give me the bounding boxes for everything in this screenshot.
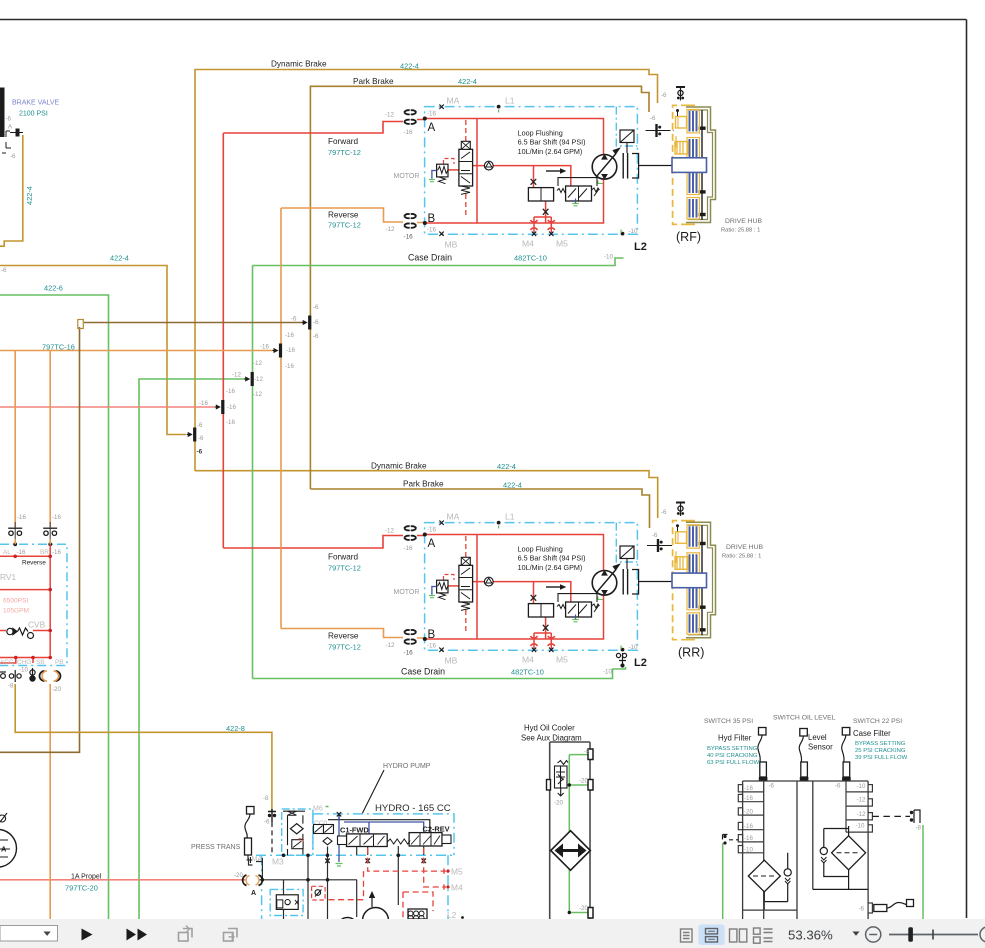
svg-text:Reverse: Reverse [22, 560, 46, 567]
wire park brake RR run [310, 489, 649, 528]
flushing valve body [276, 895, 298, 910]
orange stubs into block [15, 539, 50, 544]
brown elbow marker [78, 320, 84, 329]
svg-text:422-4: 422-4 [497, 462, 516, 471]
red net inside valve block [0, 544, 50, 663]
wire orange 797TC-16 horizontal [0, 350, 276, 352]
svg-text:BRAKE VALVE: BRAKE VALVE [12, 100, 60, 107]
svg-text:SB: SB [36, 659, 45, 666]
svg-text:-6: -6 [6, 116, 12, 123]
wire orange pump suction [49, 684, 51, 919]
svg-text:-20: -20 [52, 686, 62, 693]
svg-text:-6: -6 [661, 509, 667, 516]
brake valve outlet fitting [16, 129, 20, 137]
aux valve red dashed box [312, 886, 326, 900]
svg-text:C1-FWD: C1-FWD [340, 826, 369, 835]
wire forward RR [223, 536, 424, 549]
wire 422-4 brake valve drop [0, 135, 23, 246]
zoom out button [866, 927, 881, 942]
svg-text:Hyd Oil Cooler: Hyd Oil Cooler [524, 724, 575, 733]
wire 422-6 green [0, 295, 109, 919]
svg-text:-6: -6 [10, 153, 16, 160]
hyd filter check valve [764, 853, 787, 902]
wire 422-4 dynamic brake spine [195, 70, 658, 472]
svg-text:M5: M5 [451, 867, 463, 877]
svg-text:-6: -6 [197, 449, 203, 456]
svg-text:-16: -16 [52, 514, 62, 521]
svg-text:63 PSI FULL FLOW: 63 PSI FULL FLOW [707, 760, 760, 766]
svg-text:-8: -8 [263, 795, 269, 802]
press trans switch square [247, 807, 255, 815]
svg-text:-12: -12 [857, 797, 867, 804]
cooler port bottom [588, 908, 593, 919]
svg-text:-10: -10 [857, 783, 867, 790]
leader line [362, 770, 384, 814]
charge relief cyan boxlet [270, 889, 303, 915]
hyd filter diamond [748, 860, 780, 892]
park crosshair fitting RF [646, 124, 668, 137]
motor block RF [385, 96, 672, 254]
-8 fitting under 422-8 [268, 809, 276, 822]
bottom port labels [0, 659, 64, 666]
case drain fitting [910, 811, 913, 814]
misc gray labels [1, 92, 667, 879]
svg-text:-6: -6 [313, 319, 319, 326]
svg-text:PB: PB [55, 659, 64, 666]
svg-text:L2: L2 [447, 910, 457, 920]
press trans capsule [245, 838, 252, 855]
cooler bypass relief [555, 761, 569, 797]
svg-text:-16: -16 [17, 514, 27, 521]
case filter switch [842, 728, 850, 736]
svg-text:-16: -16 [286, 347, 296, 354]
window icon 1 [179, 926, 193, 942]
press trans cable [245, 814, 250, 838]
svg-text:-10: -10 [604, 254, 614, 261]
svg-text:M3: M3 [272, 857, 284, 867]
brake valve dashed outline [2, 131, 11, 153]
wire red forward spine [222, 133, 224, 548]
svg-text:HYDRO PUMP: HYDRO PUMP [383, 763, 431, 770]
pump circle charge [338, 918, 358, 938]
green return left [722, 843, 724, 919]
case drain dashed line [872, 815, 910, 817]
left suction dashes [729, 839, 738, 841]
svg-text:422-4: 422-4 [110, 254, 129, 263]
bypass text right [855, 741, 908, 761]
charge check valve [288, 811, 297, 815]
ladder right stubs case [846, 781, 872, 832]
wire code labels teal [42, 62, 547, 893]
svg-text:-6: -6 [313, 333, 319, 340]
center spring [387, 839, 410, 844]
svg-text:1A Propel: 1A Propel [71, 874, 102, 881]
park dash link RR [669, 545, 674, 547]
cooler port top [588, 749, 593, 760]
svg-text:SWITCH 35 PSI: SWITCH 35 PSI [704, 718, 753, 725]
wire 422-4 left horizontal [0, 266, 186, 435]
ladder left stubs [738, 785, 763, 853]
SECTION: bottom toolbar [0, 919, 985, 948]
wire dynamic brake RR run [195, 471, 658, 518]
hyd filter switch [759, 728, 767, 736]
svg-text:M4: M4 [451, 883, 463, 893]
-20 orange coupler [40, 671, 61, 681]
percent dropdown arrow [853, 932, 860, 936]
highlighted page icon [699, 925, 725, 946]
cooler diamond [551, 831, 591, 871]
fitting -12 green [244, 372, 254, 386]
wire reverse RF [281, 208, 425, 223]
svg-text:797TC-12: 797TC-12 [328, 221, 361, 230]
wire green branch to cascade [139, 379, 245, 919]
svg-text:-16: -16 [226, 388, 236, 395]
cooler port left [547, 780, 551, 791]
svg-text:40 PSI CRACKING: 40 PSI CRACKING [707, 753, 758, 759]
svg-text:-6: -6 [835, 783, 841, 790]
svg-text:Park Brake: Park Brake [353, 77, 394, 86]
svg-text:Ratio: 25.88 : 1: Ratio: 25.88 : 1 [721, 228, 760, 234]
svg-text:AL: AL [3, 549, 11, 556]
toolbar background [0, 919, 985, 948]
park crosshair fitting RR [647, 539, 669, 552]
top black bus [328, 814, 430, 833]
tank bottom link [743, 902, 797, 911]
svg-text:Dynamic Brake: Dynamic Brake [371, 462, 427, 471]
SECTION: wires [0, 70, 658, 920]
red dash M5 path [325, 848, 446, 900]
cooler column walls [550, 742, 590, 919]
cooler port mid [588, 780, 593, 791]
svg-text:-6: -6 [197, 422, 203, 429]
green ground [336, 864, 343, 867]
svg-text:797TC-12: 797TC-12 [328, 148, 361, 157]
svg-text:-12: -12 [232, 372, 242, 379]
svg-text:A: A [251, 890, 256, 897]
svg-text:Hyd Filter: Hyd Filter [718, 734, 752, 743]
svg-text:-6: -6 [652, 532, 658, 539]
svg-text:RV1: RV1 [0, 572, 16, 582]
fitting -16 orange [273, 344, 283, 358]
svg-text:Dynamic Brake: Dynamic Brake [271, 60, 327, 69]
drive hub RR [672, 521, 716, 640]
wire case drain RF [253, 258, 624, 266]
svg-text:-16: -16 [744, 835, 754, 842]
svg-text:-16: -16 [260, 344, 270, 351]
svg-text:422-6: 422-6 [44, 284, 63, 293]
svg-text:-16: -16 [17, 549, 27, 556]
wire 797TC-16 pink feed [0, 406, 215, 408]
svg-text:-20: -20 [554, 800, 564, 807]
fitting -6 park brown [302, 316, 312, 330]
svg-text:PRESS TRANS: PRESS TRANS [191, 844, 241, 851]
svg-text:Forward: Forward [328, 137, 358, 146]
C1 valve body [347, 834, 388, 847]
dropdown box [0, 926, 58, 942]
node dots [261, 878, 265, 882]
svg-text:-6: -6 [291, 316, 297, 323]
brake valve body bar [0, 88, 5, 138]
svg-text:797TC-12: 797TC-12 [328, 564, 361, 573]
C2 solenoid end [442, 835, 451, 844]
svg-text:-8: -8 [584, 749, 590, 756]
wire green case drain spine [252, 266, 254, 679]
CVB relief valve symbol [7, 628, 34, 639]
wire brown to park fitting [84, 322, 303, 324]
SECTION: filter tank assembly [704, 715, 923, 920]
bottom fittings [0, 668, 35, 682]
wire case drain RR [253, 667, 626, 679]
svg-text:105GPM: 105GPM [3, 608, 29, 615]
svg-text:422-4: 422-4 [400, 62, 419, 71]
C1 solenoid end [338, 836, 347, 845]
svg-text:DRIVE HUB: DRIVE HUB [726, 544, 763, 551]
svg-text:Case Filter: Case Filter [853, 729, 891, 738]
svg-text:-16: -16 [227, 404, 237, 411]
svg-text:-8: -8 [8, 683, 14, 690]
svg-text:797TC-16: 797TC-16 [42, 343, 75, 352]
quad icon [754, 928, 773, 943]
svg-text:-12: -12 [254, 376, 264, 383]
svg-text:SWITCH 22 PSI: SWITCH 22 PSI [853, 718, 902, 725]
charge block verticals [283, 811, 305, 855]
svg-text:-20: -20 [579, 778, 589, 785]
window icon 2 [224, 929, 238, 942]
cascade labels [197, 304, 319, 442]
svg-text:-6: -6 [198, 435, 204, 442]
motor block RR [385, 512, 672, 670]
C2 valve body [409, 833, 442, 846]
svg-text:-6: -6 [264, 819, 270, 826]
up arrow on pump line [369, 891, 375, 898]
red dash M4 path [398, 848, 446, 919]
wire 422-8 olive [15, 684, 272, 811]
svg-text:Reverse: Reverse [328, 211, 359, 220]
svg-text:-16: -16 [744, 795, 754, 802]
fitting -6 olive [187, 428, 197, 442]
level sensor switch [800, 729, 808, 737]
svg-text:-10: -10 [856, 823, 866, 830]
BR bulkhead fitting [43, 522, 57, 540]
svg-text:DRIVE HUB: DRIVE HUB [725, 218, 762, 225]
zoom slider [889, 934, 978, 936]
pump circle main [363, 908, 389, 934]
charge filter cyan box [282, 809, 313, 855]
aux valve symbol [315, 890, 321, 896]
svg-text:CHG: CHG [17, 659, 31, 666]
valve drop lines [357, 846, 424, 905]
gear motor box [408, 909, 427, 919]
svg-text:-16: -16 [744, 823, 754, 830]
svg-text:BYPASS SETTING: BYPASS SETTING [707, 746, 758, 752]
svg-text:ACC: ACC [0, 659, 14, 666]
wire reverse RR [281, 629, 425, 639]
svg-text:2100 PSI: 2100 PSI [19, 111, 48, 118]
wire orange valve block BR [49, 351, 51, 528]
svg-text:(RR): (RR) [678, 646, 704, 660]
X ports mid [325, 859, 426, 864]
wire brown x79 [0, 327, 80, 752]
SECTION: brake valve fragment top-left [0, 88, 60, 161]
drive hub RF [672, 105, 716, 224]
svg-text:Level: Level [808, 733, 827, 742]
svg-text:25 PSI CRACKING: 25 PSI CRACKING [855, 748, 906, 754]
svg-text:Forward: Forward [328, 553, 358, 562]
svg-text:482TC-10: 482TC-10 [511, 668, 544, 677]
green return right [922, 825, 924, 919]
svg-text:M6: M6 [313, 806, 323, 813]
svg-text:-8: -8 [916, 825, 922, 832]
svg-text:-6: -6 [1, 267, 7, 274]
svg-text:-20: -20 [744, 809, 754, 816]
svg-text:Sensor: Sensor [808, 743, 833, 752]
wire forward RF [223, 120, 424, 134]
svg-text:-16: -16 [199, 400, 209, 407]
charge relief valve [292, 840, 303, 849]
svg-text:BR: BR [40, 549, 49, 556]
park dash link RF [668, 130, 674, 132]
node dots on cyan top [13, 542, 17, 546]
svg-text:-16: -16 [285, 332, 295, 339]
svg-text:A: A [1, 845, 7, 854]
svg-text:39 PSI FULL FLOW: 39 PSI FULL FLOW [855, 755, 908, 761]
lower black plumbing [249, 847, 358, 948]
svg-text:422-8: 422-8 [226, 724, 245, 733]
pump suction circle left [0, 830, 17, 868]
svg-text:-12: -12 [857, 811, 867, 818]
fitting -16 red [215, 400, 225, 414]
big pump cyan frame [313, 814, 454, 855]
svg-text:-10: -10 [603, 669, 613, 676]
svg-text:-6: -6 [859, 906, 865, 913]
svg-text:422-4: 422-4 [458, 77, 477, 86]
svg-text:MA: MA [252, 856, 263, 863]
svg-text:-16: -16 [285, 363, 295, 370]
svg-text:See Aux Diagram: See Aux Diagram [521, 734, 582, 743]
dashed feed line [271, 822, 273, 855]
M5 M4 port ticks [443, 869, 445, 890]
ladder left labels [744, 783, 841, 854]
svg-text:-20: -20 [579, 905, 589, 912]
svg-text:-12: -12 [253, 391, 263, 398]
svg-text:(RF): (RF) [676, 230, 701, 244]
svg-text:Reverse: Reverse [328, 632, 359, 641]
SECTION: hydro pump assembly [0, 763, 464, 948]
X port top [337, 812, 341, 816]
wire name labels black [71, 60, 452, 881]
two page icon [730, 929, 747, 942]
case filter diamond [832, 836, 866, 870]
blue pilot lines [339, 816, 424, 862]
wire park brake spine [310, 86, 649, 489]
SECTION: left valve block (cut at edge) [0, 514, 67, 693]
svg-text:797TC-20: 797TC-20 [65, 884, 98, 893]
zoom in partial [980, 927, 985, 942]
tank main frame [743, 781, 869, 919]
port labels [3, 549, 49, 556]
page border top [0, 19, 967, 21]
svg-text:HYDRO - 165 CC: HYDRO - 165 CC [375, 803, 451, 814]
svg-text:-12: -12 [253, 360, 263, 367]
valve block cyan dashed border [0, 544, 67, 665]
svg-text:797TC-12: 797TC-12 [328, 643, 361, 652]
svg-text:-6: -6 [313, 304, 319, 311]
svg-text:482TC-10: 482TC-10 [514, 254, 547, 263]
svg-text:-6: -6 [769, 783, 775, 790]
svg-text:422-4: 422-4 [25, 186, 34, 205]
svg-text:CVB: CVB [28, 620, 46, 630]
svg-text:BYPASS SETTING: BYPASS SETTING [855, 741, 906, 747]
cooler green line [567, 755, 588, 913]
svg-text:-6: -6 [661, 92, 667, 99]
svg-text:6500PSI: 6500PSI [3, 598, 28, 605]
svg-text:-16: -16 [52, 549, 62, 556]
case check valve [824, 829, 849, 877]
cyan lower frame sides [262, 855, 448, 919]
CC0 valve cluster [314, 825, 324, 834]
doc icon [681, 929, 693, 942]
hub top fitting RR [676, 502, 685, 517]
page border right [966, 20, 968, 919]
wire orange valve block AL [14, 351, 16, 528]
skip button [127, 929, 137, 941]
bypass text left [707, 746, 760, 766]
svg-text:-16: -16 [226, 419, 236, 426]
svg-text:-16: -16 [744, 785, 754, 792]
svg-text:Park Brake: Park Brake [403, 480, 444, 489]
charge filter diamond [290, 824, 303, 834]
RR L2 coupler symbol [616, 653, 626, 667]
cooler arrow [559, 849, 582, 852]
play button [82, 929, 93, 941]
svg-text:-10: -10 [744, 847, 754, 854]
cyan bottom rail [256, 854, 454, 856]
ladder right labels [856, 783, 867, 830]
-20 coupler [243, 875, 263, 886]
svg-text:Ratio: 25.88 : 1: Ratio: 25.88 : 1 [722, 554, 761, 560]
wire 1A propel pink [0, 879, 246, 881]
wire orange reverse spine [280, 208, 282, 629]
SECTION: hyd oil cooler [521, 724, 593, 920]
svg-text:422-4: 422-4 [503, 481, 522, 490]
hub top fitting RF [676, 86, 685, 101]
dropdown arrow [44, 932, 51, 936]
AL bulkhead fitting [8, 522, 22, 540]
svg-text:Case Drain: Case Drain [401, 667, 445, 677]
svg-text:53.36%: 53.36% [788, 928, 833, 943]
svg-text:-6: -6 [650, 115, 656, 122]
red node dots [13, 555, 52, 660]
svg-text:Case Drain: Case Drain [408, 253, 452, 263]
svg-text:SWITCH OIL LEVEL: SWITCH OIL LEVEL [773, 715, 836, 722]
svg-text:-10: -10 [19, 667, 29, 674]
